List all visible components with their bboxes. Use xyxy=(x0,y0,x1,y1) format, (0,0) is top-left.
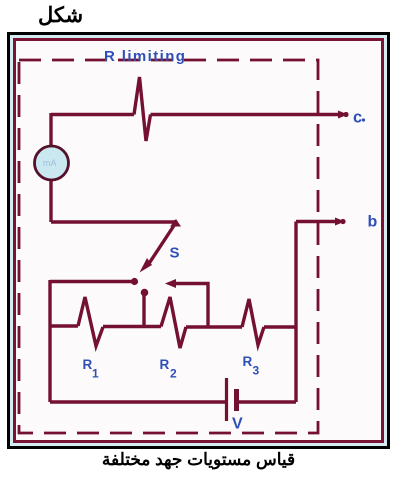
svg-text:mA: mA xyxy=(43,158,57,168)
svg-text:2: 2 xyxy=(170,367,177,381)
svg-text:V: V xyxy=(232,416,243,433)
svg-text:R: R xyxy=(83,357,93,372)
svg-text:c: c xyxy=(353,109,362,127)
svg-text:b: b xyxy=(368,214,378,231)
svg-text:R: R xyxy=(160,357,170,372)
svg-text:S: S xyxy=(170,245,180,262)
svg-text:R: R xyxy=(243,354,253,369)
svg-text:R limiting: R limiting xyxy=(104,48,186,65)
svg-text:1: 1 xyxy=(92,367,99,381)
svg-text:3: 3 xyxy=(253,364,260,378)
